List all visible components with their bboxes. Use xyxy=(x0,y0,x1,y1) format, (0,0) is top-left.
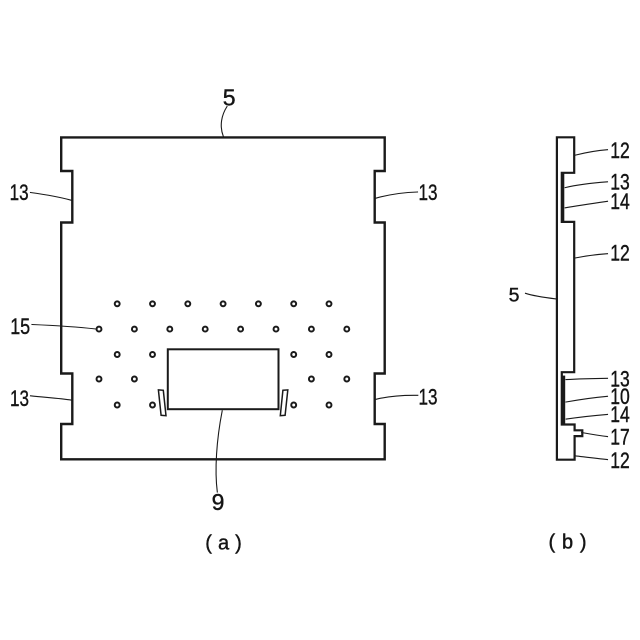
leader 12 middle xyxy=(575,254,607,258)
leader 13 upper side xyxy=(565,182,607,188)
svg-text:14: 14 xyxy=(610,402,630,427)
svg-text:17: 17 xyxy=(610,425,630,450)
svg-text:( a ): ( a ) xyxy=(205,532,242,554)
leader 13 bottom-left xyxy=(31,396,72,400)
leader 13 top-right xyxy=(376,192,418,198)
right clip xyxy=(280,390,288,416)
svg-text:( b ): ( b ) xyxy=(549,531,587,553)
svg-text:12: 12 xyxy=(610,241,630,266)
svg-text:13: 13 xyxy=(10,386,29,411)
leader to 5 xyxy=(221,107,227,137)
svg-text:13: 13 xyxy=(419,384,438,409)
leader 13 lower side xyxy=(566,378,608,379)
leader 5 side xyxy=(526,293,557,299)
leader 10 xyxy=(566,396,608,402)
svg-text:5: 5 xyxy=(509,284,520,306)
svg-text:14: 14 xyxy=(610,189,630,214)
svg-text:12: 12 xyxy=(610,448,630,473)
svg-text:13: 13 xyxy=(10,180,29,205)
leader 12 bottom xyxy=(575,456,608,460)
svg-text:12: 12 xyxy=(610,138,630,163)
device 10 with adhesive 14 lower (dark band) xyxy=(561,376,565,424)
plate profile 5 (side view b) xyxy=(557,137,582,459)
svg-text:5: 5 xyxy=(223,84,236,110)
leader 17 xyxy=(582,433,608,437)
leader 9 xyxy=(216,411,222,492)
leader 13 bottom-right xyxy=(376,395,418,399)
svg-text:9: 9 xyxy=(212,489,225,515)
holes 15 (dot grid) xyxy=(97,301,350,407)
leader 14 lower side xyxy=(566,414,607,419)
svg-text:15: 15 xyxy=(10,314,30,339)
opening 9 (central rectangle) xyxy=(168,349,279,409)
leader 12 top xyxy=(575,150,607,155)
leader 14 upper side xyxy=(565,201,607,208)
leader 13 top-left xyxy=(31,193,72,201)
svg-text:13: 13 xyxy=(419,180,438,205)
plate outline 5 (plan view a) xyxy=(61,137,385,459)
leader 15 xyxy=(32,325,96,330)
left clip xyxy=(158,390,166,416)
adhesive layer 14 upper (dark band) xyxy=(561,174,564,222)
